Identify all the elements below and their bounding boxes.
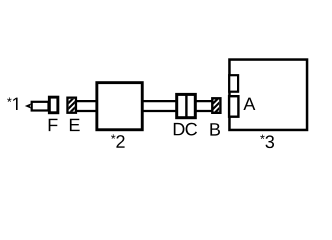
front shaft stub (32, 102, 49, 111)
label A (243, 98, 255, 110)
shaft wires E to box *2 (77, 101, 98, 111)
box *3 (transfer housing) (229, 60, 307, 130)
label *1 (7, 98, 17, 110)
box *2 (center joint) (97, 83, 142, 130)
label D (174, 123, 185, 135)
label F (49, 119, 58, 131)
arrowhead tip of front shaft (25, 103, 31, 108)
label *3 (260, 135, 274, 149)
label C (186, 123, 197, 136)
shaft wires box *2 to DC block (143, 101, 177, 111)
component B (hatched bushing) (202, 95, 233, 115)
upper notch rect inside box *3 (229, 75, 238, 92)
label *2 (111, 134, 125, 147)
lower notch rect inside box *3 (229, 96, 238, 117)
label B (210, 123, 220, 135)
component D/C block (177, 94, 196, 118)
component E (hatched bushing) (57, 95, 88, 115)
shaft wires DC block to B (196, 101, 213, 111)
component F (collar) (49, 97, 58, 113)
label E (70, 119, 80, 131)
